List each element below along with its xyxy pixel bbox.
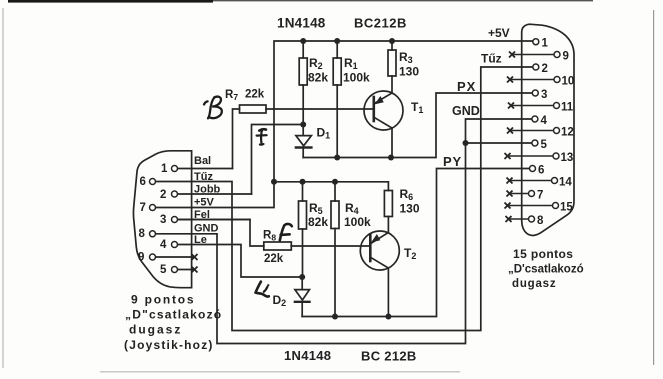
resistor R4 (331, 182, 339, 317)
svg-text:GND: GND (452, 104, 480, 118)
x mark pin15 (505, 203, 511, 209)
resistor R5 (299, 182, 307, 277)
node D1 anode / R2 (300, 122, 306, 128)
connector J1 9-pin D shell (133, 151, 191, 288)
svg-text:R6: R6 (400, 187, 414, 202)
wire Fel from pin3 (goes to R8) (177, 219, 250, 221)
svg-text:14: 14 (559, 177, 572, 189)
svg-text:dugasz: dugasz (512, 278, 556, 290)
wires J2 NC pins with x marks (508, 55, 555, 220)
svg-text:R7: R7 (225, 89, 238, 102)
svg-text:T2: T2 (404, 246, 416, 261)
page artifact left dotted edge (3, 8, 4, 368)
svg-text:R4: R4 (345, 201, 359, 216)
svg-text:R2: R2 (309, 56, 323, 71)
wire pin15 NC (508, 205, 553, 207)
svg-text:3: 3 (541, 89, 547, 101)
resistor R1 (333, 41, 341, 158)
resistor R8 (175, 220, 292, 251)
diode D1 (296, 125, 312, 158)
pin 12 (554, 128, 560, 134)
x mark pin13 (505, 153, 511, 159)
svg-text:GND: GND (194, 223, 219, 235)
pin 9 (150, 254, 156, 260)
wire pin10 NC (510, 79, 554, 81)
wire pin7 NC (510, 193, 529, 195)
wire T2 base from R8 (291, 245, 370, 247)
node GND pin5 tee (463, 140, 469, 146)
x mark pin7 (507, 191, 513, 197)
svg-text:3: 3 (160, 214, 166, 226)
wire T1 base from R7 (266, 108, 374, 110)
svg-text:1: 1 (542, 38, 549, 50)
resistor R3 (388, 41, 396, 93)
wire 15pin pin5 from GND (466, 142, 533, 144)
svg-text:Le: Le (194, 234, 207, 246)
pin 2 (533, 64, 539, 70)
svg-text:22k: 22k (264, 253, 284, 265)
svg-text:6: 6 (538, 165, 544, 177)
wire Jobb to D1 node (252, 125, 304, 195)
pin 14 (552, 178, 558, 184)
x mark pin12 (507, 128, 513, 134)
x mark joystick pin5 (192, 267, 198, 273)
wire top +5V rail to 15-pin pin1 (274, 41, 534, 182)
wire pin14 NC (510, 180, 552, 182)
pin 4 (532, 116, 538, 122)
svg-text:130: 130 (399, 65, 419, 79)
wire Bal from pin1 (goes up to R7) (177, 168, 233, 170)
svg-text:„D'csatlakozó: „D'csatlakozó (508, 264, 584, 276)
svg-text:(Joystik-hoz): (Joystik-hoz) (124, 338, 214, 352)
pin 1 (172, 166, 178, 172)
wire Tuz from pin6 to right 15-pin pin2 (155, 67, 533, 331)
pin 13 (553, 153, 559, 159)
wire pin8 NC (509, 218, 529, 220)
pin 8 (529, 216, 535, 222)
svg-text:10: 10 (562, 76, 575, 88)
svg-text:4: 4 (160, 239, 167, 251)
wire pin9 NC (512, 54, 554, 56)
svg-text:1: 1 (161, 163, 168, 175)
pin 15 (553, 203, 559, 209)
svg-text:82k: 82k (308, 215, 328, 229)
node R2 top (300, 38, 306, 44)
svg-text:Bal: Bal (194, 155, 211, 167)
node T2 collector on rail (385, 314, 391, 320)
node D2 anode / R5 / Le (299, 274, 305, 280)
pin 8 (150, 231, 156, 237)
pin 10 (554, 77, 560, 83)
svg-text:+5V: +5V (194, 197, 215, 209)
wire pin12 NC (510, 130, 554, 132)
pin 6 (530, 166, 536, 172)
svg-text:6: 6 (140, 176, 146, 188)
node R4 top (332, 179, 338, 185)
resistor R7 (233, 105, 267, 169)
x mark pin10 (507, 77, 513, 83)
wire joystick pin5 NC (177, 269, 195, 271)
svg-text:Fel: Fel (194, 209, 210, 221)
pin 11 (554, 103, 560, 109)
node +5V tee to stage2 rail (271, 179, 277, 185)
wire stage1 collector rail (PX rail) (303, 93, 532, 158)
pin 4 (172, 242, 178, 248)
svg-text:9: 9 (138, 251, 144, 263)
handwritten le mark at D2 (256, 282, 270, 297)
svg-text:dugasz: dugasz (129, 323, 182, 337)
handwritten F squiggle at R8 (280, 224, 292, 240)
handwritten f mark (257, 129, 267, 144)
svg-text:22k: 22k (245, 89, 265, 101)
svg-text:2: 2 (160, 189, 166, 201)
resistor R6 (384, 191, 392, 233)
pin 9 (554, 52, 560, 58)
resistor R2 (299, 41, 307, 125)
pin 3 (532, 90, 538, 96)
pin 1 (533, 39, 539, 45)
page artifact top thin line (213, 0, 593, 1)
x mark pin8 (506, 216, 512, 222)
svg-text:7: 7 (537, 190, 543, 202)
wire stage2 collector rail (PY rail) (302, 169, 529, 317)
node T1 collector on rail (388, 155, 394, 161)
svg-text:T1: T1 (411, 100, 423, 115)
page artifact bottom smudge (100, 371, 460, 373)
svg-text:12: 12 (561, 127, 574, 139)
pin 7 (150, 205, 156, 211)
svg-text:130: 130 (400, 202, 420, 216)
wire pin13 NC (508, 155, 554, 157)
svg-text:8: 8 (537, 215, 544, 227)
x mark joystick pin9 (192, 254, 198, 260)
svg-text:2: 2 (542, 63, 548, 75)
connector J2 15-pin D shell (522, 24, 574, 235)
svg-text:5: 5 (160, 264, 167, 276)
node R5 top (300, 179, 306, 185)
svg-text:5: 5 (541, 139, 548, 151)
transistor T1 (364, 91, 403, 158)
svg-text:R3: R3 (399, 50, 413, 65)
wire +5V from joystick pin7 (155, 182, 274, 208)
svg-text:Tűz: Tűz (194, 171, 213, 183)
caption 15-pin connector (508, 247, 584, 290)
wire GND from pin8 to bottom rail to 15-pin pins 4,5 (155, 119, 533, 344)
diode D2 (295, 277, 310, 317)
svg-text:1N4148: 1N4148 (284, 348, 331, 363)
svg-text:15: 15 (560, 202, 573, 214)
svg-text:D2: D2 (273, 293, 287, 308)
connector J1 pins (150, 166, 178, 273)
wire Jobb from pin2 (177, 193, 252, 195)
pin 7 (529, 191, 535, 197)
svg-text:13: 13 (561, 152, 574, 164)
svg-text:100k: 100k (344, 215, 371, 229)
wire joystick pin9 NC (155, 256, 195, 258)
svg-text:7: 7 (140, 202, 146, 214)
x marks (not connected) (192, 52, 516, 273)
svg-text:R8: R8 (263, 230, 276, 243)
svg-text:D1: D1 (317, 126, 331, 141)
svg-text:BC212B: BC212B (354, 16, 407, 31)
caption 9-pin connector (124, 293, 222, 353)
x mark pin9 (509, 52, 515, 58)
svg-text:8: 8 (139, 228, 146, 240)
x mark pin11 (508, 103, 514, 109)
node R1 bottom on rail (334, 155, 340, 161)
svg-text:R5: R5 (309, 201, 323, 216)
page artifact right dotted edge (653, 10, 654, 365)
node R3 top (389, 38, 395, 44)
pin 6 (150, 179, 156, 185)
transistor T2 (360, 231, 399, 317)
svg-text:+5V: +5V (488, 26, 510, 40)
page artifact top-left black bar (8, 0, 213, 3)
svg-text:9: 9 (563, 51, 569, 63)
svg-text:PY: PY (443, 154, 462, 169)
pin 5 (532, 140, 538, 146)
svg-text:Tűz: Tűz (481, 52, 502, 66)
pin 5 (172, 267, 178, 273)
svg-text:PX: PX (457, 79, 476, 94)
svg-text:100k: 100k (343, 71, 370, 85)
connector J2 pins (529, 39, 561, 222)
svg-text:15 pontos: 15 pontos (513, 247, 573, 261)
handwritten script B mark (204, 97, 222, 119)
pin 2 (172, 191, 178, 197)
node R1 top (334, 38, 340, 44)
svg-text:R1: R1 (344, 56, 358, 71)
wire stage2 +5V rail (274, 182, 388, 191)
node R4 bottom on rail (332, 314, 338, 320)
svg-text:Jobb: Jobb (194, 184, 221, 196)
x mark pin14 (507, 178, 513, 184)
svg-text:4: 4 (541, 115, 548, 127)
svg-text:82k: 82k (308, 71, 328, 85)
svg-text:11: 11 (561, 102, 574, 114)
pin 3 (172, 217, 178, 223)
svg-text:9 pontos: 9 pontos (131, 293, 195, 307)
svg-text:BC 212B: BC 212B (361, 349, 417, 364)
svg-text:„D"csatlakozó: „D"csatlakozó (125, 308, 222, 322)
wire pin11 NC (511, 105, 554, 107)
svg-text:1N4148: 1N4148 (277, 16, 326, 31)
wire Le to D2 node (175, 245, 303, 278)
